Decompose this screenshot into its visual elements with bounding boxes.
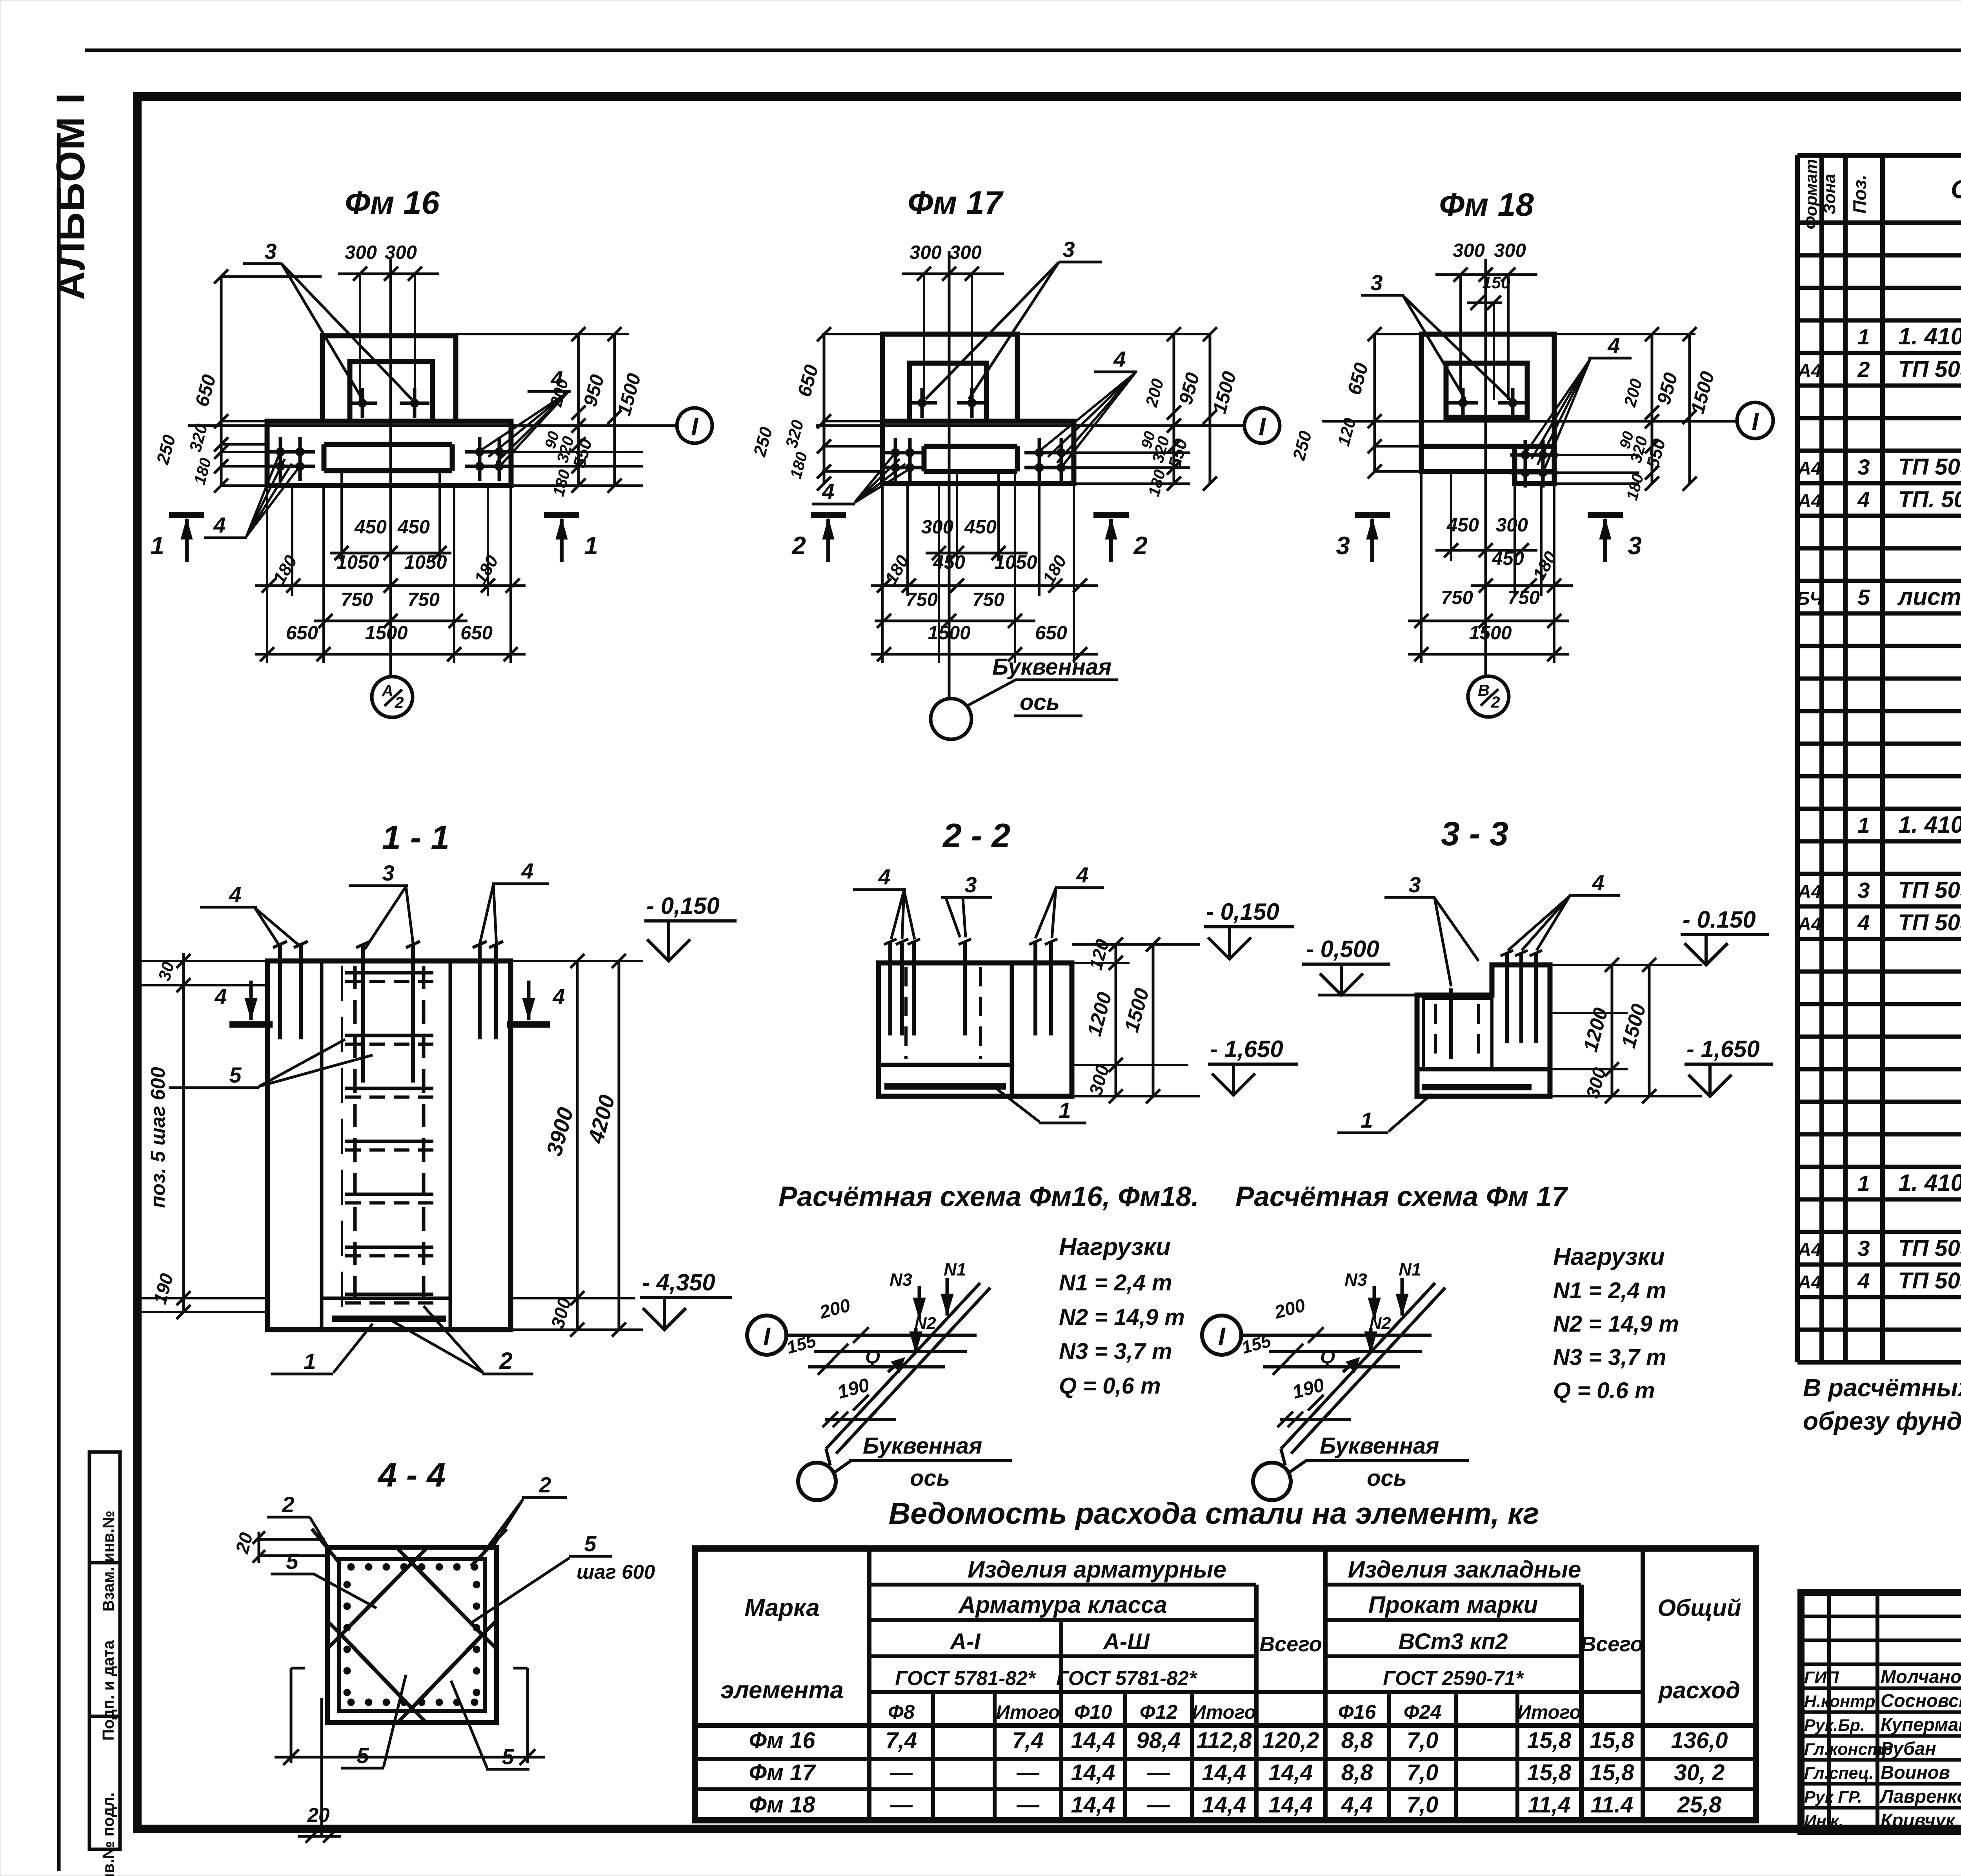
FM17 bottom dim chains <box>881 484 884 663</box>
section 2-2 body <box>879 963 1072 1096</box>
svg-text:150: 150 <box>1482 273 1510 292</box>
svg-text:В расчётных схемах даны: В расчётных схемах даны нормативные нагр… <box>1803 1374 1961 1402</box>
svg-text:I: I <box>1218 1322 1226 1350</box>
svg-text:N2: N2 <box>1370 1314 1391 1333</box>
svg-text:750: 750 <box>972 589 1004 610</box>
svg-text:Взам. инв.№: Взам. инв.№ <box>99 1510 117 1612</box>
section 4-4 diamond tie <box>341 1563 482 1708</box>
svg-text:А4: А4 <box>1797 360 1821 381</box>
svg-text:А4: А4 <box>1797 1239 1821 1260</box>
svg-text:3 - 3: 3 - 3 <box>1441 815 1508 853</box>
svg-text:300: 300 <box>345 242 377 263</box>
svg-text:Ф12: Ф12 <box>1140 1701 1178 1723</box>
svg-text:1: 1 <box>1857 324 1870 349</box>
svg-text:N1: N1 <box>944 1259 966 1279</box>
svg-text:БЧ: БЧ <box>1797 588 1823 609</box>
svg-text:5: 5 <box>357 1743 369 1768</box>
calc scheme FM17 <box>1202 1316 1241 1355</box>
svg-text:3: 3 <box>1336 531 1350 560</box>
svg-text:А: А <box>381 682 393 700</box>
svg-text:7,4: 7,4 <box>886 1728 917 1753</box>
FM16 axis circle I <box>677 408 712 443</box>
svg-text:ГОСТ 5781-82*: ГОСТ 5781-82* <box>895 1667 1036 1689</box>
svg-text:Подп. и дата: Подп. и дата <box>99 1640 117 1741</box>
svg-text:2: 2 <box>282 1492 294 1517</box>
svg-text:300: 300 <box>1453 240 1485 261</box>
svg-text:Кривчук: Кривчук <box>1881 1810 1956 1831</box>
svg-text:4: 4 <box>1857 910 1870 935</box>
FM18 axis circle B/2 <box>1468 676 1509 717</box>
FM18 pedestal outline <box>1421 334 1554 471</box>
svg-text:300: 300 <box>921 517 953 538</box>
svg-text:ось: ось <box>1020 690 1060 715</box>
FM18 anchor crosses <box>1510 453 1540 457</box>
svg-text:750: 750 <box>906 589 938 610</box>
svg-text:1: 1 <box>1857 813 1870 837</box>
outer thin border top <box>85 49 1961 52</box>
svg-text:300: 300 <box>1496 515 1528 536</box>
svg-text:Зона: Зона <box>1820 174 1839 215</box>
section 1-1 left dims <box>182 953 185 1312</box>
svg-text:1. 410 -3 , Вып.1: 1. 410 -3 , Вып.1 <box>1898 812 1961 838</box>
svg-text:7,0: 7,0 <box>1407 1792 1439 1818</box>
svg-text:15,8: 15,8 <box>1527 1728 1572 1753</box>
FM18 axis circle I <box>1737 402 1773 439</box>
svg-text:300: 300 <box>385 242 417 263</box>
svg-text:N3 = 3,7 т: N3 = 3,7 т <box>1553 1345 1666 1370</box>
FM18 section markers 3 <box>1355 512 1390 518</box>
svg-text:300: 300 <box>950 242 982 263</box>
FM17 slab band <box>882 421 1074 484</box>
svg-text:N2 = 14,9 т: N2 = 14,9 т <box>1059 1305 1185 1330</box>
section 1-1 slab lines <box>322 1297 450 1300</box>
svg-text:элемента: элемента <box>720 1677 844 1704</box>
svg-text:4,4: 4,4 <box>1341 1792 1373 1818</box>
svg-text:—: — <box>1016 1792 1040 1818</box>
svg-text:5: 5 <box>1857 585 1870 610</box>
section 3-3 right dims <box>1550 964 1702 966</box>
svg-text:450: 450 <box>964 517 997 538</box>
svg-text:14,4: 14,4 <box>1202 1760 1246 1785</box>
svg-text:4: 4 <box>229 882 241 907</box>
svg-text:А-Ш: А-Ш <box>1102 1629 1150 1654</box>
svg-text:N3: N3 <box>1344 1270 1367 1290</box>
svg-text:Буквенная: Буквенная <box>863 1433 982 1459</box>
svg-text:В: В <box>1478 681 1490 699</box>
svg-text:3: 3 <box>1857 878 1870 903</box>
svg-text:Рубан: Рубан <box>1881 1738 1936 1759</box>
left margin stamp strip <box>89 1452 120 1849</box>
section 4-4 corner hooks <box>312 1529 340 1564</box>
svg-text:4: 4 <box>213 513 226 537</box>
FM16 axis lines <box>188 424 677 427</box>
svg-text:4: 4 <box>214 984 227 1009</box>
svg-text:Лавренко: Лавренко <box>1879 1786 1961 1807</box>
FM17 left dim chain <box>823 334 826 484</box>
svg-text:Q = 0,6 т: Q = 0,6 т <box>1059 1373 1161 1399</box>
svg-text:ТП. 503-3-20.87 альбом IV: ТП. 503-3-20.87 альбом IV <box>1898 487 1961 512</box>
svg-text:450: 450 <box>1492 548 1524 569</box>
svg-text:14,4: 14,4 <box>1071 1792 1115 1818</box>
svg-text:Сосновская: Сосновская <box>1881 1690 1961 1711</box>
svg-text:750: 750 <box>1508 587 1540 608</box>
svg-text:Итого: Итого <box>996 1702 1060 1723</box>
section 3-3 anchor bolts <box>1505 953 1509 1043</box>
FM17 anchor crosses <box>880 451 910 455</box>
svg-text:N1 = 2,4 т: N1 = 2,4 т <box>1059 1270 1172 1296</box>
svg-text:14,4: 14,4 <box>1202 1792 1246 1818</box>
svg-text:Фм 17: Фм 17 <box>908 184 1004 221</box>
svg-text:4: 4 <box>1076 862 1088 887</box>
svg-text:А4: А4 <box>1797 458 1821 479</box>
svg-text:2 - 2: 2 - 2 <box>942 817 1010 855</box>
svg-text:Марка: Марка <box>744 1594 819 1621</box>
svg-text:4: 4 <box>1857 1268 1870 1293</box>
svg-text:1: 1 <box>1857 1171 1870 1195</box>
FM17 letter axis circle <box>931 699 971 739</box>
svg-text:N2 = 14,9 т: N2 = 14,9 т <box>1553 1311 1679 1337</box>
outer thin border left <box>57 133 61 1871</box>
svg-text:7,0: 7,0 <box>1407 1728 1439 1753</box>
FM17 axis circle I <box>1244 408 1280 443</box>
svg-text:4: 4 <box>1113 347 1126 371</box>
svg-text:лист 10: лист 10 <box>1897 584 1961 610</box>
FM18 inner well <box>1446 363 1527 417</box>
svg-text:- 0,150: - 0,150 <box>646 893 720 919</box>
FM17 inner well <box>910 363 986 421</box>
svg-text:Ф16: Ф16 <box>1338 1701 1376 1723</box>
svg-text:4: 4 <box>878 864 890 889</box>
section 1-1 column body <box>267 961 511 1330</box>
svg-text:650: 650 <box>1035 622 1067 644</box>
svg-text:2: 2 <box>791 531 806 560</box>
svg-text:1. 410 -3 , Вып.1: 1. 410 -3 , Вып.1 <box>1898 323 1961 349</box>
svg-text:Ф10: Ф10 <box>1074 1701 1112 1723</box>
svg-text:2: 2 <box>538 1472 551 1497</box>
svg-text:ТП 503-3-20.87 альбом IV: ТП 503-3-20.87 альбом IV <box>1898 910 1961 935</box>
svg-text:11,4: 11,4 <box>1528 1792 1571 1818</box>
svg-text:Q: Q <box>865 1346 880 1368</box>
svg-text:25,8: 25,8 <box>1677 1792 1722 1818</box>
FM16 pedestal outline <box>322 336 456 421</box>
svg-text:1: 1 <box>150 531 164 560</box>
section 2-2 right dims <box>1072 943 1200 946</box>
svg-text:3: 3 <box>1370 270 1383 295</box>
svg-text:Фм 16: Фм 16 <box>345 184 440 221</box>
svg-text:15,8: 15,8 <box>1590 1760 1635 1785</box>
svg-text:14,4: 14,4 <box>1071 1760 1115 1785</box>
svg-text:ось: ось <box>1367 1465 1407 1491</box>
svg-text:—: — <box>890 1760 913 1785</box>
svg-text:Гл.констр: Гл.констр <box>1804 1740 1893 1759</box>
svg-text:Обозначение: Обозначение <box>1951 175 1961 204</box>
svg-text:—: — <box>1147 1792 1170 1818</box>
svg-text:450: 450 <box>354 517 387 538</box>
svg-text:8,8: 8,8 <box>1341 1760 1373 1785</box>
svg-text:Всего: Всего <box>1581 1632 1643 1656</box>
svg-text:1500: 1500 <box>928 622 970 644</box>
svg-text:поз. 5 шаг 600: поз. 5 шаг 600 <box>147 1067 169 1208</box>
svg-text:ГОСТ 5781-82*: ГОСТ 5781-82* <box>1056 1667 1197 1689</box>
FM16 bottom dim chains <box>266 487 268 663</box>
svg-text:—: — <box>1147 1760 1170 1785</box>
svg-text:5: 5 <box>584 1531 597 1556</box>
svg-text:I: I <box>1752 408 1759 436</box>
svg-text:Фм 17: Фм 17 <box>749 1760 817 1785</box>
svg-text:112,8: 112,8 <box>1197 1728 1252 1753</box>
section 2-2 anchor bolts <box>888 941 892 1035</box>
svg-text:шаг 600: шаг 600 <box>577 1561 655 1583</box>
svg-text:30, 2: 30, 2 <box>1674 1760 1725 1785</box>
section 4-4 X marks <box>397 1548 427 1578</box>
FM18 right dim chains <box>1554 333 1695 335</box>
svg-text:20: 20 <box>307 1804 330 1826</box>
svg-text:ТП 503-3-20.87 альбом IV: ТП 503-3-20.87 альбом IV <box>1898 357 1961 382</box>
svg-text:N1 = 2,4 т: N1 = 2,4 т <box>1553 1278 1666 1303</box>
section 1-1 anchor bolts above <box>278 944 282 1039</box>
svg-text:300: 300 <box>910 242 942 263</box>
svg-text:- 1,650: - 1,650 <box>1210 1036 1283 1062</box>
svg-text:5: 5 <box>286 1549 298 1574</box>
svg-text:650: 650 <box>286 622 318 644</box>
svg-text:15,8: 15,8 <box>1590 1728 1635 1753</box>
svg-text:1 - 1: 1 - 1 <box>382 819 449 857</box>
svg-text:А4: А4 <box>1797 490 1821 511</box>
svg-text:—: — <box>890 1792 913 1818</box>
svg-text:А4: А4 <box>1797 881 1821 902</box>
svg-text:N3: N3 <box>890 1270 912 1290</box>
svg-text:5: 5 <box>229 1063 242 1087</box>
svg-text:ТП 503-3-20.87 альбом IV: ТП 503-3-20.87 альбом IV <box>1898 454 1961 480</box>
svg-text:ось: ось <box>910 1465 950 1491</box>
svg-text:2: 2 <box>499 1348 512 1374</box>
svg-text:—: — <box>1016 1760 1040 1785</box>
svg-text:15,8: 15,8 <box>1527 1760 1572 1785</box>
svg-text:1050: 1050 <box>336 552 379 573</box>
section 1-1 rebar ladder <box>353 966 357 1310</box>
svg-text:ТП 503-3-20.87 альбом IV: ТП 503-3-20.87 альбом IV <box>1898 1268 1961 1294</box>
svg-text:- 0,500: - 0,500 <box>1306 936 1379 962</box>
svg-text:Инж.: Инж. <box>1804 1812 1844 1831</box>
svg-text:Буквенная: Буквенная <box>992 654 1111 680</box>
svg-text:1: 1 <box>1361 1108 1373 1132</box>
section 1-1 right dims <box>511 960 643 962</box>
svg-text:Всего: Всего <box>1259 1632 1322 1656</box>
svg-text:Куперман: Куперман <box>1881 1714 1961 1735</box>
svg-text:2: 2 <box>1133 531 1148 560</box>
svg-text:450: 450 <box>933 552 965 573</box>
svg-text:120,2: 120,2 <box>1262 1728 1319 1753</box>
section 3-3 dashed box <box>1423 998 1492 1069</box>
section 4-4 outer square <box>327 1547 497 1723</box>
svg-text:Фм 16: Фм 16 <box>749 1728 816 1753</box>
svg-text:1500: 1500 <box>1469 622 1512 644</box>
svg-text:Ведомость расхода стали: Ведомость расхода стали на элемент, кг <box>889 1497 1539 1530</box>
svg-text:4 - 4: 4 - 4 <box>377 1456 446 1494</box>
svg-text:N3 = 3,7 т: N3 = 3,7 т <box>1059 1339 1172 1364</box>
svg-text:4: 4 <box>552 984 565 1009</box>
title block <box>1801 1592 1961 1831</box>
svg-text:расход: расход <box>1658 1677 1740 1703</box>
svg-text:Рук ГР.: Рук ГР. <box>1804 1788 1862 1807</box>
svg-text:8,8: 8,8 <box>1341 1728 1373 1753</box>
FM18 left dim chain <box>1373 334 1376 471</box>
svg-text:N1: N1 <box>1399 1259 1421 1279</box>
svg-text:750: 750 <box>407 589 440 610</box>
section 4-4 rebar dots <box>347 1563 355 1570</box>
vedomost table <box>695 1548 1756 1820</box>
svg-text:14,4: 14,4 <box>1071 1728 1115 1753</box>
svg-text:Расчётная схема Фм 17: Расчётная схема Фм 17 <box>1235 1181 1568 1212</box>
FM16 right dim chains <box>456 333 629 335</box>
FM16 inner well <box>350 362 433 424</box>
svg-text:Поз.: Поз. <box>1849 175 1870 214</box>
svg-text:750: 750 <box>1441 587 1473 608</box>
svg-text:I: I <box>763 1322 771 1350</box>
svg-text:Гл.спец.: Гл.спец. <box>1804 1764 1874 1783</box>
svg-text:1050: 1050 <box>404 552 447 573</box>
calc scheme FM16/FM18 <box>747 1316 786 1355</box>
svg-text:3: 3 <box>1628 531 1642 560</box>
svg-text:4: 4 <box>1857 487 1870 512</box>
svg-text:ВСт3 кп2: ВСт3 кп2 <box>1398 1629 1508 1654</box>
svg-text:- 0,150: - 0,150 <box>1206 899 1279 925</box>
section 2-2 dashed verticals <box>904 967 908 1059</box>
svg-text:Молчанов: Молчанов <box>1881 1666 1961 1687</box>
svg-text:3: 3 <box>1062 237 1075 262</box>
svg-text:Фм 18: Фм 18 <box>1439 186 1534 223</box>
svg-text:Ф8: Ф8 <box>888 1701 915 1723</box>
svg-text:14,4: 14,4 <box>1269 1760 1313 1785</box>
svg-text:Итого: Итого <box>1192 1702 1256 1723</box>
svg-text:Буквенная: Буквенная <box>1320 1433 1439 1459</box>
svg-text:Q: Q <box>1320 1346 1335 1368</box>
svg-text:3: 3 <box>382 861 394 885</box>
svg-text:3: 3 <box>1857 455 1870 479</box>
svg-text:ТП 503-3-20.87 альбом IV: ТП 503-3-20.87 альбом IV <box>1898 1236 1961 1261</box>
svg-text:1. 410 -3 , Вып.1: 1. 410 -3 , Вып.1 <box>1898 1170 1961 1196</box>
FM18 anchor pocket <box>1515 446 1554 484</box>
svg-text:- 0.150: - 0.150 <box>1683 906 1756 933</box>
FM18 bottom dim chains <box>1420 471 1423 663</box>
svg-text:ГОСТ 2590-71*: ГОСТ 2590-71* <box>1383 1667 1524 1689</box>
svg-text:обрезу фундамента на: обрезу фундамента на отм. - 0. 150. <box>1803 1407 1961 1435</box>
svg-text:Ф24: Ф24 <box>1404 1701 1442 1723</box>
svg-text:- 4,350: - 4,350 <box>642 1269 715 1296</box>
section 1-1 cut markers 4 <box>229 1021 273 1028</box>
svg-text:Q = 0.6 т: Q = 0.6 т <box>1553 1378 1655 1403</box>
svg-text:Арматура класса: Арматура класса <box>958 1592 1167 1618</box>
FM17 pedestal outline <box>882 334 1017 421</box>
svg-text:450: 450 <box>397 517 430 538</box>
svg-text:7,0: 7,0 <box>1407 1760 1439 1785</box>
svg-text:4: 4 <box>521 859 533 883</box>
svg-text:11.4: 11.4 <box>1591 1792 1634 1818</box>
svg-text:3: 3 <box>964 872 977 897</box>
svg-text:3: 3 <box>1857 1236 1870 1261</box>
svg-text:1: 1 <box>584 531 598 560</box>
svg-text:- 1,650: - 1,650 <box>1686 1036 1760 1062</box>
svg-text:1500: 1500 <box>365 622 407 644</box>
svg-text:750: 750 <box>341 589 373 610</box>
svg-text:Фм 18: Фм 18 <box>749 1792 816 1818</box>
svg-text:А4: А4 <box>1797 1272 1821 1292</box>
FM17 axis lines <box>816 424 1244 427</box>
svg-text:ТП 503-3-20.87 альбом IV: ТП 503-3-20.87 альбом IV <box>1898 877 1961 903</box>
svg-text:1: 1 <box>304 1349 316 1374</box>
svg-text:4: 4 <box>1607 333 1620 358</box>
FM16 axis circle A/2 <box>372 677 413 717</box>
svg-text:1050: 1050 <box>994 552 1037 573</box>
section 4-4 side dim lines <box>290 1668 293 1763</box>
svg-text:Общий: Общий <box>1657 1595 1741 1621</box>
svg-text:АЛЬБОМ I: АЛЬБОМ I <box>48 92 93 300</box>
svg-text:А-I: А-I <box>949 1629 981 1654</box>
svg-text:Воинов: Воинов <box>1881 1762 1950 1783</box>
svg-text:300: 300 <box>1494 240 1526 261</box>
svg-text:98,4: 98,4 <box>1137 1728 1181 1753</box>
FM18 axis lines <box>1323 420 1736 423</box>
svg-text:Изделия закладные: Изделия закладные <box>1348 1556 1581 1583</box>
svg-text:450: 450 <box>1446 515 1479 536</box>
FM16 left dim chain <box>220 277 223 486</box>
specification table grid <box>1795 155 1800 1362</box>
svg-text:I: I <box>1259 413 1266 441</box>
FM16 anchor crosses <box>266 450 295 454</box>
FM16 slab band <box>267 421 511 486</box>
svg-text:4: 4 <box>1592 870 1604 895</box>
svg-text:136,0: 136,0 <box>1671 1728 1728 1753</box>
section 3-3 body <box>1417 965 1550 1096</box>
svg-text:N2: N2 <box>915 1314 936 1333</box>
svg-text:Прокат марки: Прокат марки <box>1368 1592 1538 1618</box>
svg-text:Рук.Бр.: Рук.Бр. <box>1804 1716 1865 1735</box>
svg-text:2: 2 <box>1857 357 1870 382</box>
svg-text:Изделия арматурные: Изделия арматурные <box>968 1556 1226 1583</box>
svg-text:Формат: Формат <box>1802 159 1821 229</box>
svg-text:А4: А4 <box>1797 913 1821 934</box>
svg-text:Итого: Итого <box>1517 1702 1581 1723</box>
svg-text:7,4: 7,4 <box>1012 1728 1044 1753</box>
svg-text:1: 1 <box>1059 1098 1071 1123</box>
svg-text:650: 650 <box>460 622 493 644</box>
svg-text:Н.контр: Н.контр <box>1804 1692 1876 1711</box>
svg-text:Нагрузки: Нагрузки <box>1059 1234 1171 1261</box>
FM17 right dim chains <box>1017 333 1211 335</box>
FM16 section markers 1 <box>169 512 204 518</box>
svg-text:Инв.№ подл.: Инв.№ подл. <box>99 1792 117 1876</box>
svg-text:I: I <box>691 413 699 441</box>
svg-text:3: 3 <box>264 239 277 264</box>
svg-text:Нагрузки: Нагрузки <box>1553 1243 1665 1270</box>
svg-text:ГИП: ГИП <box>1804 1668 1839 1687</box>
svg-text:3: 3 <box>1408 872 1421 897</box>
FM17 section markers 2 <box>811 512 846 518</box>
svg-text:14,4: 14,4 <box>1269 1792 1313 1818</box>
svg-text:Расчётная схема Фм16, Фм18.: Расчётная схема Фм16, Фм18. <box>779 1181 1199 1212</box>
